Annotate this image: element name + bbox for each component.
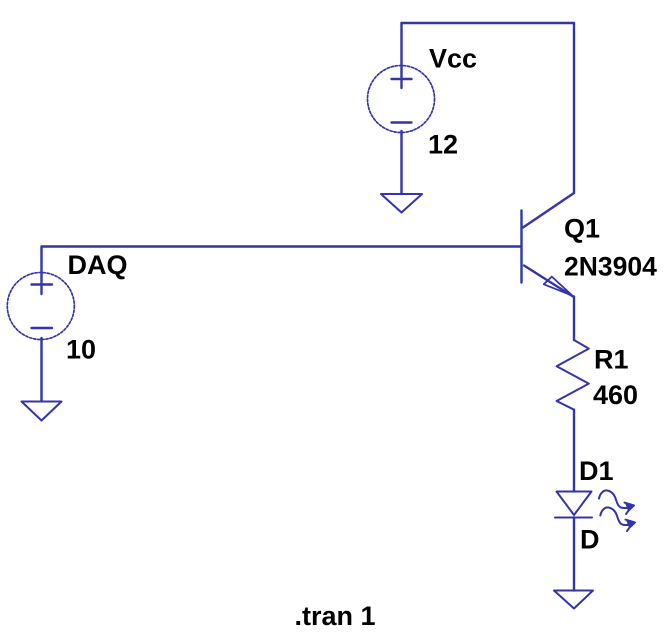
wire DAQ top corner to base <box>42 247 522 295</box>
transistor Q1 base bar <box>520 211 522 283</box>
svg-text:R1: R1 <box>594 345 629 375</box>
ground under Vcc <box>381 194 422 213</box>
DAQ plus sign <box>32 283 53 285</box>
wire Vcc pin top <box>400 23 402 88</box>
Vcc plus sign <box>392 78 412 80</box>
svg-text:DAQ: DAQ <box>68 250 128 280</box>
svg-text:2N3904: 2N3904 <box>564 252 657 282</box>
wire DAQ to ground <box>40 338 42 402</box>
ground bottom <box>554 591 593 609</box>
voltage source Vcc circle <box>368 66 435 133</box>
transistor Q1 emitter <box>524 266 574 341</box>
svg-text:12: 12 <box>428 130 458 160</box>
svg-text:Q1: Q1 <box>564 214 600 244</box>
wire Vcc to ground <box>400 131 402 194</box>
transistor Q1 emitter arrow <box>544 277 573 296</box>
resistor R1 zigzag <box>557 340 589 410</box>
transistor Q1 collector <box>523 193 574 228</box>
wire LED to ground <box>573 518 575 591</box>
Vcc minus sign <box>392 121 412 123</box>
svg-text:.tran 1: .tran 1 <box>295 601 376 631</box>
LED light arrow 2 <box>600 507 631 525</box>
LED light arrow 1 <box>599 490 630 508</box>
svg-text:Vcc: Vcc <box>429 44 477 74</box>
wire top from Vcc to collector <box>402 23 575 193</box>
diode D1 triangle <box>557 492 592 516</box>
voltage source DAQ circle <box>7 273 74 340</box>
svg-text:460: 460 <box>593 380 638 410</box>
wire resistor to LED <box>573 410 575 492</box>
ground under DAQ <box>22 402 62 421</box>
DAQ minus sign <box>32 327 53 329</box>
svg-text:10: 10 <box>66 335 96 365</box>
svg-text:D1: D1 <box>579 456 614 486</box>
diode D1 cathode bar <box>555 517 592 519</box>
svg-text:D: D <box>580 525 600 555</box>
